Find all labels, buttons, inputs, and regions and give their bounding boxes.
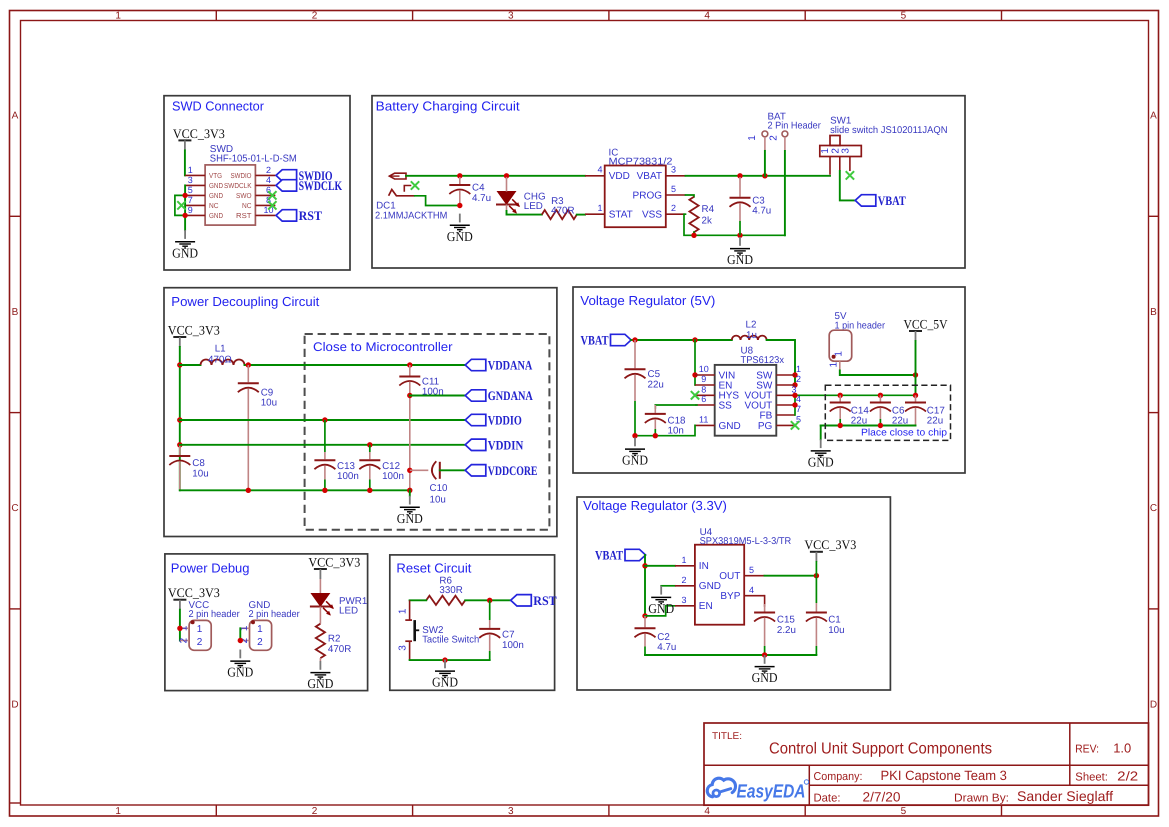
svg-text:470R: 470R (551, 205, 574, 216)
svg-text:SWDIO: SWDIO (231, 171, 252, 180)
wire EN to junction (645, 606, 675, 616)
svg-text:5: 5 (749, 565, 754, 575)
svg-text:330R: 330R (439, 585, 462, 596)
IC U8 TPS6123x (695, 346, 801, 436)
power flag VCC_3V3 (debug VCC) (168, 585, 220, 610)
dashed box Place close to chip (825, 385, 950, 440)
svg-text:3: 3 (841, 148, 852, 154)
wire VBAT to L2 (631, 339, 732, 341)
svg-text:Reset Circuit: Reset Circuit (396, 561, 471, 576)
block box Battery Charging Circuit (372, 96, 965, 268)
svg-text:C1: C1 (828, 615, 841, 626)
svg-text:GND: GND (432, 675, 458, 690)
SWD connector pins with numbers (185, 165, 275, 220)
junction C14 top (838, 393, 843, 398)
wire BYP to C15 (764, 596, 766, 606)
inductor L1 470R (201, 343, 245, 365)
ground (C4) (447, 214, 473, 244)
wire SS to C18 (655, 405, 697, 408)
junction EN/C2 (642, 613, 647, 618)
net flag VDDANA (465, 358, 533, 373)
svg-text:GNDANA: GNDANA (488, 388, 533, 403)
junction C13 bottom (322, 488, 327, 493)
ground (SWD) (172, 230, 198, 260)
svg-text:RST: RST (533, 593, 557, 608)
svg-text:3: 3 (671, 165, 676, 175)
wire GND pin to rail (635, 425, 695, 435)
svg-text:3: 3 (188, 175, 193, 185)
power flag VCC_3V3 (3.3V reg) (804, 537, 856, 562)
svg-text:C8: C8 (192, 458, 205, 469)
svg-text:1: 1 (257, 624, 263, 635)
wire BAT pin2 to GND rail (784, 151, 786, 235)
svg-text:C10: C10 (430, 483, 449, 494)
junction C11 top (407, 362, 412, 367)
svg-text:L1: L1 (215, 343, 226, 354)
wire rail to L1 (180, 364, 201, 366)
ground (reset) (432, 660, 458, 690)
wire VSS to GND rail (684, 214, 785, 235)
svg-text:1: 1 (197, 624, 203, 635)
svg-text:PG: PG (758, 421, 773, 432)
junction C18 bottom (653, 433, 658, 438)
svg-text:1: 1 (188, 165, 193, 175)
svg-text:GND: GND (209, 181, 223, 190)
power flag VCC_5V (904, 316, 949, 341)
junction rail VDDANA (177, 362, 182, 367)
wire GND pin 2 (661, 585, 675, 587)
title block (704, 723, 1149, 805)
wire to IN pin (645, 565, 675, 567)
wire VDDIO rail (180, 419, 465, 421)
svg-text:GND: GND (622, 453, 648, 468)
svg-text:MCP73831/2: MCP73831/2 (609, 157, 673, 168)
junction OUT/C1 (814, 573, 819, 578)
svg-text:11: 11 (699, 415, 708, 425)
svg-text:2.1MMJACKTHM: 2.1MMJACKTHM (375, 211, 447, 222)
svg-text:C7: C7 (502, 630, 515, 641)
svg-text:4.7u: 4.7u (472, 193, 491, 204)
svg-text:1: 1 (829, 361, 840, 367)
svg-text:C6: C6 (892, 405, 905, 416)
connector 5V 1 pin header (829, 311, 886, 370)
svg-text:C17: C17 (927, 405, 945, 416)
net flag VDDIO (465, 413, 522, 428)
ground (3.3V) (752, 655, 778, 685)
junction C5 bottom (632, 433, 637, 438)
LED CHG leads (506, 177, 508, 192)
svg-text:VBAT: VBAT (878, 193, 906, 208)
no-connect X on NC pin 8 (268, 201, 276, 209)
wire decoupling GND rail (180, 489, 410, 491)
wire GND bracket pins 5-9 (175, 195, 185, 215)
svg-text:9: 9 (701, 374, 706, 384)
svg-text:SWDCLK: SWDCLK (299, 178, 343, 193)
svg-text:2/7/20: 2/7/20 (863, 789, 901, 804)
svg-text:VCC_3V3: VCC_3V3 (308, 554, 360, 569)
wire VIN/EN branch (694, 340, 696, 385)
switch SW2 Tactile Switch (397, 600, 479, 660)
svg-text:2k: 2k (702, 215, 712, 226)
no-connect X on SWO pin 6 (268, 191, 276, 199)
power flag VCC_3V3 (decoupling) (168, 322, 220, 347)
svg-text:SHF-105-01-L-D-SM: SHF-105-01-L-D-SM (210, 154, 297, 165)
wire SWD GND pins down (184, 185, 186, 230)
svg-text:RST: RST (299, 208, 323, 223)
svg-text:VCC_3V3: VCC_3V3 (173, 126, 225, 141)
junction C11 bottom (407, 488, 412, 493)
net flag SWDCLK (276, 178, 343, 193)
svg-text:GND: GND (209, 191, 223, 200)
net flag VDDIN (465, 437, 524, 452)
svg-text:TPS6123x: TPS6123x (741, 355, 785, 366)
ground (5V caps) (808, 439, 834, 469)
wire L2 to SW pins (767, 340, 795, 385)
svg-text:SPX3819M5-L-3-3/TR: SPX3819M5-L-3-3/TR (700, 536, 792, 547)
net flag VBAT (battery) (855, 193, 906, 208)
junction C9 top (246, 362, 251, 367)
junction pin 9 (182, 213, 187, 218)
junction VDDCORE (407, 468, 412, 473)
wire OUT to VCC_3V3 (765, 575, 817, 577)
wire BAT pin1 down (764, 151, 766, 176)
svg-text:2.2u: 2.2u (777, 625, 796, 636)
junction C3 top (737, 173, 742, 178)
svg-text:SS: SS (719, 400, 733, 411)
R2 bottom lead (319, 658, 321, 661)
svg-text:PKI Capstone Team 3: PKI Capstone Team 3 (881, 768, 1007, 783)
IC MCP73831/2 (585, 148, 686, 228)
svg-text:LED: LED (524, 201, 543, 212)
resistor R2 470R (316, 624, 352, 658)
svg-text:C2: C2 (657, 632, 670, 643)
capacitor C14 22u (830, 395, 870, 426)
wire C10 to VDDCORE flag (440, 469, 465, 471)
LED PWR1 bottom lead (319, 607, 321, 624)
svg-text:Power Debug: Power Debug (171, 560, 250, 575)
svg-text:4: 4 (749, 585, 754, 595)
wire rail to ground (820, 426, 822, 440)
svg-text:C5: C5 (648, 369, 661, 380)
capacitor C18 10n (645, 405, 686, 437)
svg-text:B: B (1150, 307, 1157, 318)
capacitor C5 22u (625, 340, 664, 436)
wire debug GND header (239, 628, 241, 640)
svg-text:GND: GND (648, 601, 674, 616)
LED CHG (496, 192, 520, 214)
block box Power Decoupling Circuit (164, 288, 557, 537)
ground (battery) (727, 237, 753, 267)
junction pin 5 (182, 193, 187, 198)
inductor L2 1u (732, 319, 767, 341)
wire GNDANA (410, 395, 465, 397)
svg-text:NC: NC (209, 201, 219, 210)
svg-text:VDDIO: VDDIO (488, 413, 522, 428)
wire VCC to header (179, 610, 181, 641)
svg-text:BYP: BYP (720, 591, 740, 602)
svg-text:Sheet:: Sheet: (1075, 772, 1108, 784)
net flag VBAT (5V reg) (581, 333, 632, 348)
capacitor C15 2.2u (754, 604, 796, 655)
svg-text:GND: GND (209, 211, 223, 220)
svg-text:1.0: 1.0 (1113, 741, 1131, 756)
svg-text:4.7u: 4.7u (657, 642, 676, 653)
svg-text:L2: L2 (746, 319, 757, 330)
dashed box Close to Microcontroller (305, 334, 550, 530)
svg-text:4: 4 (266, 175, 271, 185)
svg-text:10u: 10u (261, 398, 277, 409)
wire DC1 to C4 (406, 175, 460, 177)
wire 3.3V GND rail (645, 654, 816, 656)
svg-text:IN: IN (699, 561, 709, 572)
svg-text:4.7u: 4.7u (752, 206, 771, 217)
svg-text:4: 4 (704, 806, 710, 817)
svg-text:C9: C9 (261, 387, 274, 398)
wire 5V caps GND rail (821, 425, 916, 427)
svg-text:VSS: VSS (642, 210, 662, 221)
wire SW1 pin2 to VBAT flag (840, 171, 855, 200)
svg-text:1: 1 (796, 364, 801, 374)
svg-text:2: 2 (312, 11, 318, 22)
junction C17 top (913, 393, 918, 398)
title block texts (712, 731, 1138, 804)
svg-text:2: 2 (312, 806, 318, 817)
junction BAT pin 1 (762, 173, 767, 178)
svg-text:VBAT: VBAT (581, 333, 609, 348)
svg-text:EasyEDA: EasyEDA (737, 782, 806, 803)
net flag RST (SWD) (276, 208, 322, 223)
svg-text:REV:: REV: (1075, 744, 1099, 756)
svg-text:B: B (12, 307, 19, 318)
block box Reset Circuit (390, 555, 555, 690)
svg-text:TITLE:: TITLE: (712, 731, 742, 742)
svg-text:100n: 100n (382, 471, 404, 482)
resistor R6 330R (426, 576, 465, 605)
svg-text:1: 1 (820, 148, 831, 154)
wire left VCC rail (179, 347, 181, 490)
svg-text:NC: NC (242, 201, 252, 210)
wire to decoupling ground (409, 490, 411, 495)
svg-text:2: 2 (197, 637, 203, 648)
connector BAT 2 Pin Header (747, 111, 822, 151)
svg-text:3: 3 (681, 595, 686, 605)
svg-text:OUT: OUT (719, 571, 740, 582)
no-connect X on SW1 pin 3 (846, 171, 854, 179)
junction C7 top (487, 598, 492, 603)
wire VBAT down to EN/C2 (644, 555, 646, 616)
capacitor C12 100n (359, 445, 404, 491)
svg-text:1: 1 (834, 351, 845, 357)
svg-text:EN: EN (699, 601, 713, 612)
svg-text:C: C (11, 503, 18, 514)
svg-text:Close to Microcontroller: Close to Microcontroller (313, 340, 453, 354)
svg-text:VDD: VDD (609, 171, 630, 182)
svg-text:5: 5 (188, 185, 193, 195)
svg-text:R4: R4 (702, 204, 715, 215)
block box Voltage Regulator (5V) (573, 287, 965, 473)
svg-text:VTG: VTG (209, 171, 222, 180)
connector SWD SHF-105-01-L-D-SM (205, 144, 297, 225)
junction VIN branch (692, 337, 697, 342)
junction C14 bottom (838, 423, 843, 428)
connector GND 2 pin header (239, 600, 300, 650)
svg-text:GND: GND (727, 252, 753, 267)
wire DC1 sleeve to GND node (415, 196, 460, 206)
svg-text:2 pin header: 2 pin header (249, 609, 301, 620)
svg-text:2: 2 (671, 203, 676, 213)
junction debug GND pin2 (238, 638, 243, 643)
svg-text:Tactile Switch: Tactile Switch (422, 635, 479, 646)
capacitor C6 22u (870, 395, 908, 426)
junction VOUT pin3 (792, 393, 797, 398)
ground (debug LED) (307, 661, 333, 691)
ground (decoupling) (397, 496, 423, 526)
svg-text:2: 2 (796, 374, 801, 384)
capacitor C7 100n (479, 600, 524, 660)
svg-text:C12: C12 (382, 461, 400, 472)
junction IN (642, 563, 647, 568)
svg-text:22u: 22u (927, 416, 943, 427)
svg-text:470Ω: 470Ω (208, 354, 232, 365)
svg-text:A: A (1150, 111, 1157, 122)
no-connect X on DC1 middle pin (411, 181, 419, 189)
svg-text:8: 8 (701, 385, 706, 395)
svg-text:C4: C4 (472, 183, 485, 194)
svg-text:2 pin header: 2 pin header (189, 609, 241, 620)
svg-text:1: 1 (115, 11, 121, 22)
svg-text:C3: C3 (752, 195, 765, 206)
svg-text:Date:: Date: (814, 792, 841, 804)
svg-text:4: 4 (704, 11, 710, 22)
svg-text:VCC_3V3: VCC_3V3 (168, 322, 220, 337)
svg-text:100n: 100n (502, 640, 524, 651)
svg-text:VDDANA: VDDANA (488, 358, 533, 373)
svg-text:DC1: DC1 (376, 200, 396, 211)
LED PWR1 (310, 594, 334, 616)
svg-text:3: 3 (508, 11, 514, 22)
svg-text:C14: C14 (851, 405, 870, 416)
junction VCC_5V (913, 372, 918, 377)
capacitor C11 100n (399, 365, 443, 490)
no-connect X on NC pin 7 (177, 201, 185, 209)
svg-text:Voltage Regulator (3.3V): Voltage Regulator (3.3V) (583, 498, 727, 513)
junction rail VDDIO (177, 417, 182, 422)
junction VIN (692, 372, 697, 377)
wire C4 to VDD (460, 175, 585, 177)
svg-text:C13: C13 (337, 461, 356, 472)
capacitor C17 22u (905, 395, 945, 426)
wire VDDANA rail (245, 364, 466, 366)
svg-text:Place close to chip: Place close to chip (861, 427, 948, 438)
wire VCC_3V3 to SWD pin 1 (184, 150, 186, 175)
wire R6 to RST flag (465, 599, 511, 601)
svg-text:VCC_5V: VCC_5V (904, 316, 949, 331)
power flag VCC_3V3 (debug LED) (308, 554, 360, 579)
svg-text:5: 5 (901, 806, 907, 817)
capacitor C2 4.7u (635, 616, 677, 655)
svg-text:SWDCLK: SWDCLK (224, 181, 252, 190)
junction debug VCC pin1 (177, 626, 182, 631)
junction reset GND (442, 657, 447, 662)
junction C12 top (367, 442, 372, 447)
wire VCC_5V down (915, 341, 917, 395)
svg-text:2 Pin Header: 2 Pin Header (768, 121, 822, 132)
svg-text:A: A (12, 111, 19, 122)
junction C6 bottom (878, 423, 883, 428)
junction GNDANA (407, 393, 412, 398)
block box SWD Connector (164, 96, 350, 270)
svg-text:470R: 470R (328, 644, 351, 655)
svg-text:GND: GND (397, 511, 423, 526)
svg-text:STAT: STAT (609, 210, 633, 221)
svg-text:Company:: Company: (814, 771, 863, 783)
ground (debug header) (227, 650, 253, 680)
svg-text:2/2: 2/2 (1117, 768, 1138, 783)
junction SW pin2 (792, 382, 797, 387)
wire VOUT-FB tie (794, 395, 796, 415)
svg-text:RST: RST (236, 211, 252, 220)
svg-text:Battery Charging Circuit: Battery Charging Circuit (376, 98, 520, 113)
svg-text:GND: GND (447, 229, 473, 244)
svg-text:2: 2 (179, 637, 190, 643)
junction LED top (504, 173, 509, 178)
svg-text:5: 5 (671, 184, 676, 194)
capacitor C9 10u (238, 365, 277, 490)
svg-text:VBAT: VBAT (595, 548, 623, 563)
svg-text:3: 3 (508, 806, 514, 817)
svg-text:1u: 1u (746, 330, 757, 341)
power flag VCC_3V3 (SWD) (173, 126, 225, 151)
svg-text:C11: C11 (422, 376, 439, 387)
svg-text:2: 2 (681, 575, 686, 585)
svg-text:6: 6 (701, 394, 706, 404)
svg-text:Sander Sieglaff: Sander Sieglaff (1017, 788, 1113, 804)
svg-text:1: 1 (597, 203, 602, 213)
svg-text:3: 3 (398, 645, 409, 651)
svg-text:FB: FB (760, 410, 773, 421)
junction C15 bottom (762, 652, 767, 657)
resistor R3 470R (542, 196, 577, 219)
svg-text:9: 9 (188, 205, 193, 215)
svg-text:10u: 10u (828, 625, 844, 636)
svg-text:GND: GND (808, 455, 834, 470)
junction C13 top (322, 417, 327, 422)
svg-text:22u: 22u (648, 379, 664, 390)
svg-text:10u: 10u (430, 495, 446, 506)
resistor R4 2k (686, 195, 715, 232)
switch SW1 slide switch JS102011JAQN (820, 116, 948, 175)
capacitor C3 4.7u (730, 177, 772, 235)
wire LED to R3 (507, 211, 542, 215)
svg-text:VBAT: VBAT (637, 171, 662, 182)
connector DC1 2.1MMJACKTHM barrel jack (375, 173, 447, 222)
junction R4 bottom (691, 233, 696, 238)
net flag VBAT (3.3V reg) (595, 548, 646, 563)
wire reset GND rail (410, 659, 490, 661)
svg-text:GND: GND (699, 581, 721, 592)
svg-text:Voltage Regulator (5V): Voltage Regulator (5V) (580, 293, 715, 308)
svg-text:C15: C15 (777, 615, 796, 626)
wire VCC_3V3 stub down (815, 562, 817, 576)
svg-text:VDDIN: VDDIN (488, 437, 524, 452)
svg-text:C: C (1150, 503, 1157, 514)
svg-text:10: 10 (699, 364, 709, 374)
svg-text:SWO: SWO (236, 191, 252, 200)
svg-text:100n: 100n (337, 471, 359, 482)
wire R6 left (410, 599, 427, 601)
capacitor C1 10u (806, 577, 845, 655)
wire 5V header to VCC_5V net (840, 370, 916, 375)
